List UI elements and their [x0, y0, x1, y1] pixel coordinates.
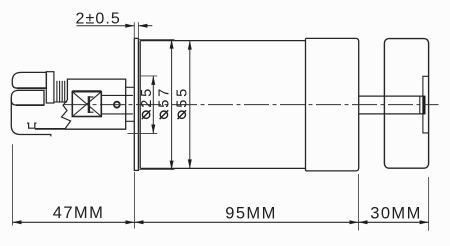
- dia symbol for 55: [178, 111, 185, 118]
- centerline: [64, 104, 439, 106]
- boss top line: [126, 86, 135, 88]
- ext line 2mm right: [137, 22, 139, 38]
- arrow 30 left: [359, 220, 368, 224]
- cable rib bottom line: [54, 101, 67, 103]
- svg-text:95MM: 95MM: [225, 204, 276, 222]
- arrow 47 left: [13, 220, 22, 224]
- crossed box diagonal 1: [72, 92, 101, 117]
- ext line 95-30: [358, 174, 360, 231]
- svg-text:25: 25: [139, 86, 155, 108]
- arrow dia55 up: [188, 41, 192, 50]
- arrow 47 right: [126, 220, 135, 224]
- dim line 2mm right part: [138, 25, 152, 27]
- boot lower bottom edge: [16, 104, 44, 106]
- break zigzag: [62, 100, 71, 129]
- dim line dia25: [152, 76, 154, 134]
- crossed box top edge bold: [72, 90, 101, 92]
- shaft end cap: [423, 96, 426, 115]
- motor mid bottom edge: [140, 167, 305, 169]
- wheel: [384, 39, 428, 169]
- wheel hub contour: [423, 76, 429, 133]
- shaft chamfer line: [419, 96, 421, 114]
- arrow dia57 down: [170, 161, 174, 170]
- dim line 2mm left part: [77, 25, 135, 27]
- screw circle: [114, 102, 120, 108]
- connector body: [11, 99, 51, 136]
- svg-text:57: 57: [157, 86, 173, 108]
- svg-text:47MM: 47MM: [53, 204, 104, 222]
- svg-text:30MM: 30MM: [370, 204, 421, 222]
- motor front face: [139, 41, 141, 169]
- cable rib 4: [64, 81, 66, 102]
- dim line dia57: [171, 40, 173, 170]
- arrow dia57 up: [170, 40, 174, 49]
- arrow dia25 down: [151, 125, 155, 134]
- connector boot upper: [12, 72, 46, 88]
- ext line dia57 bottom: [138, 169, 174, 171]
- ext line dia25 bottom: [128, 133, 158, 135]
- svg-text:55: 55: [175, 86, 191, 108]
- dim line bottom: [13, 221, 429, 223]
- arrow dia55 down: [188, 159, 192, 168]
- arrow 95 left: [135, 220, 144, 224]
- dia symbol for 57: [160, 111, 167, 118]
- dia symbol for 25: [142, 111, 149, 118]
- connector collar: [46, 72, 54, 103]
- shaft bottom line: [359, 113, 425, 115]
- ext line 30 right: [428, 177, 430, 231]
- svg-text:2±0.5: 2±0.5: [76, 11, 121, 28]
- ext line 47-95: [134, 172, 136, 229]
- gearbox housing: [65, 79, 126, 129]
- cable rib 3: [61, 81, 63, 102]
- cable rib 1: [56, 81, 58, 102]
- dim line dia55: [189, 41, 191, 169]
- arrow dia25 up: [151, 76, 155, 85]
- gear crossed box: [72, 92, 101, 117]
- ext line dia25 top: [140, 75, 157, 77]
- flange: [134, 38, 138, 170]
- connector body notch: [27, 123, 36, 128]
- cable rib 2: [59, 81, 61, 102]
- crossed box diagonal 2: [72, 92, 101, 117]
- gear channel bottom line: [101, 113, 133, 115]
- boot upper bottom edge: [17, 87, 46, 89]
- arrow 30 right: [420, 220, 429, 224]
- ext line 47 left: [12, 144, 14, 225]
- arrow 2mm pointing right: [125, 24, 134, 28]
- ext line dia57 top: [138, 39, 174, 41]
- motor seam: [305, 38, 307, 171]
- ext line 2mm left: [133, 22, 135, 38]
- boss bottom line: [126, 120, 135, 122]
- bracket in crossed box: [88, 96, 90, 113]
- gear channel top line: [101, 94, 133, 96]
- connector boot lower: [11, 90, 44, 105]
- arrow 95 right: [350, 220, 359, 224]
- connector body step line: [35, 128, 65, 130]
- motor mid top edge: [140, 40, 305, 42]
- shaft top line: [359, 95, 425, 97]
- arrow 2mm pointing left: [138, 24, 147, 28]
- motor rear section: [306, 38, 359, 171]
